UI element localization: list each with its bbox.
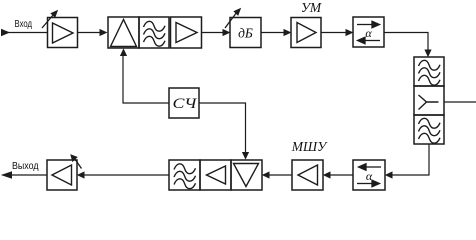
- svg-text:Выход: Выход: [12, 161, 39, 172]
- svg-text:СЧ: СЧ: [173, 96, 198, 112]
- svg-text:α: α: [365, 26, 372, 40]
- svg-text:МШУ: МШУ: [291, 139, 328, 154]
- svg-text:α: α: [366, 169, 373, 183]
- svg-text:УМ: УМ: [301, 0, 322, 15]
- svg-text:Вход: Вход: [15, 19, 33, 30]
- svg-text:дБ: дБ: [238, 26, 253, 41]
